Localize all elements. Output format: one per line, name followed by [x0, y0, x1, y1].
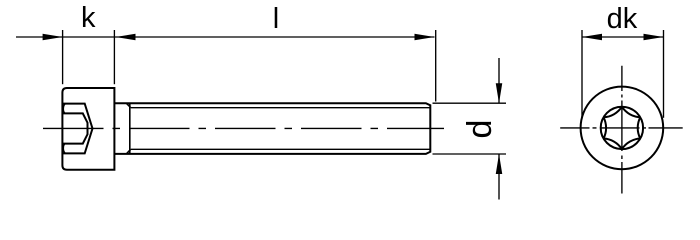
- arrow at shaft end (points right): [415, 34, 435, 41]
- d dimension line top segment: [498, 58, 500, 103]
- d arrow bottom (points up): [496, 154, 503, 174]
- hex socket inner profile: [63, 113, 88, 143]
- centerline of screw axis (side view): [43, 127, 444, 129]
- socket circle: [601, 107, 643, 149]
- torx lobe arc right: [638, 117, 641, 138]
- torx lobe arc upper right: [622, 107, 640, 118]
- svg-text:d: d: [461, 120, 499, 139]
- arrow at head left: [43, 34, 63, 41]
- hex socket corner arc bottom-left: [63, 144, 65, 154]
- thread root line top: [131, 107, 430, 109]
- d dimension extension line bottom: [433, 153, 507, 155]
- hex socket outer profile: [63, 104, 93, 154]
- torx lobe arc left: [604, 117, 607, 138]
- thread start vertical line: [129, 103, 131, 154]
- extension line head left: [62, 30, 64, 84]
- svg-text:l: l: [273, 3, 279, 35]
- dk dimension line: [582, 36, 664, 38]
- threaded shaft outline: [114, 103, 430, 154]
- thread runout chamfer top: [126, 103, 130, 108]
- dk extension line left: [581, 30, 583, 118]
- dk arrow right (points right): [644, 34, 664, 41]
- d dimension line bottom segment: [498, 154, 500, 200]
- arrow at head right (points left): [116, 34, 136, 41]
- dk arrow left (points left): [582, 34, 602, 41]
- thread runout chamfer bottom: [126, 149, 130, 154]
- torx lobe arc lower right: [622, 139, 640, 150]
- hex socket corner arc top-left: [63, 104, 65, 114]
- svg-text:k: k: [81, 2, 96, 34]
- vertical centerline of front view: [621, 66, 623, 194]
- d arrow top (points down): [496, 83, 503, 103]
- dk extension line right: [663, 30, 665, 118]
- dimension line k and l: [16, 36, 435, 38]
- torx lobe arc lower left: [604, 139, 622, 150]
- screw head outline (side view): [62, 88, 114, 170]
- extension line shaft end: [435, 30, 437, 102]
- d dimension extension line top: [433, 102, 507, 104]
- horizontal centerline of front view: [560, 127, 683, 129]
- torx lobe arc upper left: [604, 107, 622, 118]
- head front view: outer circle: [581, 87, 664, 170]
- extension line head right: [113, 30, 115, 84]
- thread root line bottom: [131, 148, 430, 150]
- svg-text:dk: dk: [607, 3, 638, 35]
